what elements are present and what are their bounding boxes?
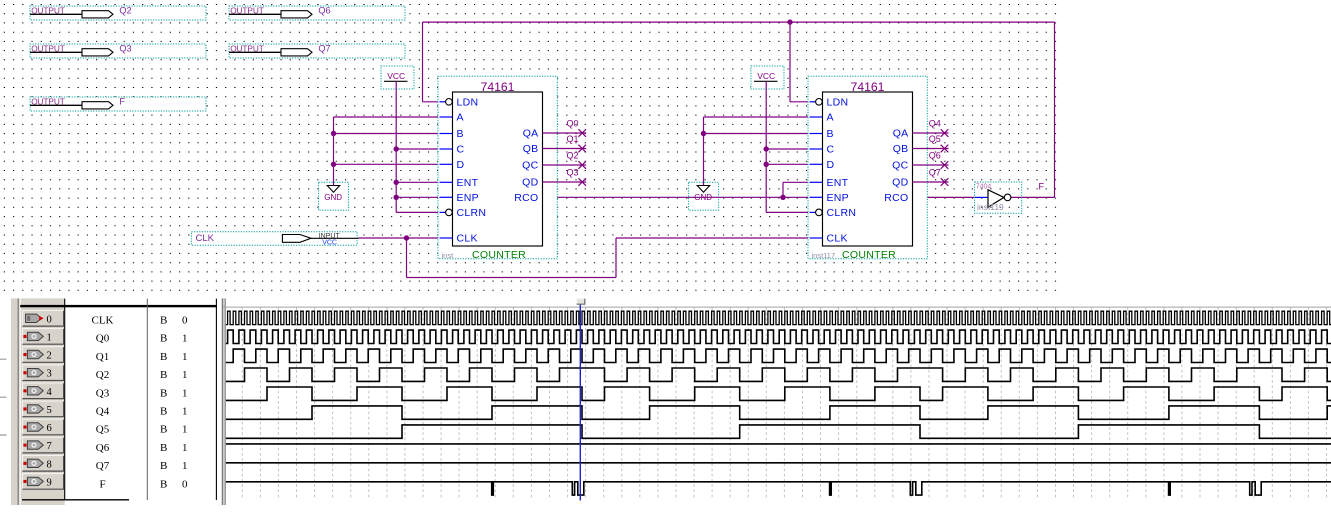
wire QD (Q3) inst — [543, 181, 587, 183]
svg-text:QC: QC — [522, 160, 538, 172]
svg-text:Q2: Q2 — [567, 151, 579, 161]
vcc symbol VCC1 bounding box — [381, 66, 414, 89]
schematic dot grid — [4, 5, 1060, 291]
wire RCO1 to ENP2 — [543, 196, 810, 198]
ground symbol GND2 bounding box — [689, 182, 719, 210]
waveform trace Q4 — [226, 406, 1331, 419]
svg-text:74161: 74161 — [851, 80, 885, 94]
counter inst117 74161 bounding box — [808, 76, 927, 258]
vcc symbol VCC1 bar — [384, 80, 408, 82]
svg-text:B: B — [457, 128, 464, 140]
pin stub ENT inst117 — [810, 181, 823, 183]
junction CLK net — [404, 235, 409, 240]
svg-text:9: 9 — [47, 477, 52, 488]
svg-text:D: D — [457, 159, 465, 171]
svg-text:Q2: Q2 — [96, 369, 109, 381]
svg-text:ENP: ENP — [827, 192, 850, 204]
svg-text:QB: QB — [523, 143, 539, 155]
wire QA (Q4) inst117 — [913, 132, 949, 134]
ground symbol GND2 triangle — [697, 186, 710, 193]
svg-text:B: B — [160, 406, 167, 418]
junction D1/GND rail — [331, 162, 336, 167]
input pin CLK line — [311, 237, 359, 239]
wire CLK rise — [615, 238, 617, 278]
pin stub D inst117 — [810, 163, 823, 165]
output pin Q3 wire line — [30, 51, 82, 53]
output pin Q6 bounding box — [229, 6, 405, 20]
output pin F arrow symbol — [82, 102, 113, 109]
svg-text:inst117: inst117 — [812, 251, 836, 260]
wire D2 — [766, 163, 809, 165]
output pin Q7 bounding box — [229, 44, 405, 58]
signal row icon 8 — [23, 459, 43, 467]
svg-text:OUTPUT: OUTPUT — [31, 44, 65, 54]
svg-text:OUTPUT: OUTPUT — [230, 6, 264, 16]
wire LDN1 horizontal — [423, 101, 443, 103]
svg-text:B: B — [160, 351, 167, 363]
time cursor — [579, 304, 581, 501]
wire B2 — [704, 133, 810, 135]
inverter inst119 triangle — [988, 190, 1004, 207]
wire CLRN1 — [396, 211, 446, 213]
svg-text:COUNTER: COUNTER — [472, 249, 526, 261]
pin stub ENP inst117 — [810, 196, 823, 198]
wire CLK to counter1 — [359, 237, 440, 239]
output pin Q7 arrow symbol — [281, 49, 312, 56]
signal row button 8 — [22, 455, 64, 472]
svg-text:7: 7 — [47, 441, 52, 452]
signal row button 6 — [22, 419, 64, 436]
output pin Q6 arrow symbol — [281, 11, 312, 18]
junction C1/VCC rail — [394, 146, 399, 151]
svg-text:7404: 7404 — [976, 183, 992, 190]
svg-text:Q1: Q1 — [96, 351, 109, 363]
column separator lines — [64, 299, 66, 500]
wire LDN feedback top run — [423, 21, 1055, 23]
wire A2 from GND rail — [704, 116, 810, 118]
waveform plot left double border — [222, 298, 226, 505]
output pin Q2 bounding box — [30, 6, 206, 20]
svg-text:CLK: CLK — [827, 233, 848, 245]
svg-text:1: 1 — [182, 369, 188, 381]
waveform trace Q6 — [226, 443, 1331, 445]
counter inst body — [453, 92, 543, 246]
svg-text:inst: inst — [442, 251, 455, 260]
signal row icon 4 — [23, 387, 43, 395]
junction B2/GND rail — [701, 131, 706, 136]
output pin F bounding box — [30, 97, 206, 111]
wire LDN2 horizontal — [790, 101, 813, 103]
vcc symbol VCC2 bar — [754, 80, 778, 82]
svg-text:Q4: Q4 — [929, 119, 941, 129]
svg-text:B: B — [160, 478, 167, 490]
svg-text:inst119: inst119 — [977, 202, 1004, 212]
wire C2 — [766, 148, 809, 150]
pin stub CLK inst — [440, 237, 453, 239]
signal row button 0 — [22, 310, 64, 327]
inverter inst119 bounding box — [975, 182, 1022, 213]
pin stub A inst — [440, 116, 453, 118]
svg-text:OUTPUT: OUTPUT — [31, 6, 65, 16]
bubble CLRN inst117 — [816, 209, 823, 216]
svg-text:B: B — [160, 460, 167, 472]
svg-text:6: 6 — [47, 423, 52, 434]
svg-text:1: 1 — [182, 333, 188, 345]
pin stub CLRN inst — [440, 211, 447, 213]
svg-text:B: B — [160, 369, 167, 381]
waveform trace Q0 — [226, 330, 1331, 343]
bubble LDN inst — [446, 99, 453, 106]
svg-text:F: F — [99, 478, 105, 490]
bubble CLRN inst — [446, 209, 453, 216]
wire VCC2 rail — [765, 81, 767, 212]
svg-text:2: 2 — [47, 351, 52, 362]
svg-text:VCC: VCC — [322, 240, 337, 247]
pin stub A inst117 — [810, 116, 823, 118]
input pin CLK arrow symbol — [282, 235, 311, 243]
svg-text:LDN: LDN — [457, 97, 479, 109]
wire LDN2 vertical — [789, 22, 791, 102]
pin stub D inst — [440, 163, 453, 165]
svg-text:D: D — [827, 159, 835, 171]
svg-text:CLRN: CLRN — [827, 207, 857, 219]
svg-text:OUTPUT: OUTPUT — [230, 44, 264, 54]
wire CLK vertical — [406, 238, 408, 278]
wire ENT2 vertical — [782, 182, 784, 197]
svg-text:COUNTER: COUNTER — [842, 249, 896, 261]
svg-text:A: A — [827, 112, 834, 124]
svg-text:GND: GND — [324, 193, 342, 202]
svg-text:Q2: Q2 — [119, 6, 131, 16]
svg-text:Q0: Q0 — [96, 333, 110, 345]
svg-text:1: 1 — [182, 424, 188, 436]
svg-text:Q6: Q6 — [929, 151, 941, 161]
junction C2/VCC rail — [764, 146, 769, 151]
dangling-end marker Q0 — [578, 129, 586, 137]
wire A1 from GND rail — [334, 116, 440, 118]
pin stub C inst117 — [810, 148, 823, 150]
signal row button 7 — [22, 437, 64, 454]
pin stub inverter input — [975, 196, 988, 198]
svg-text:B: B — [827, 128, 834, 140]
dangling-end marker Q1 — [578, 145, 586, 153]
wire CLRN2 — [766, 211, 816, 213]
bubble inverter output — [1004, 194, 1011, 201]
time cursor handle — [577, 299, 585, 305]
wire D1 — [334, 163, 440, 165]
dangling-end marker Q2 — [578, 161, 586, 169]
output pin Q3 arrow symbol — [82, 49, 113, 56]
wire GND1 rail — [333, 117, 335, 186]
svg-text:RCO: RCO — [884, 192, 908, 204]
svg-text:QA: QA — [523, 128, 539, 140]
svg-text:Q4: Q4 — [96, 406, 110, 418]
waveform trace Q5 — [226, 425, 1331, 438]
pin stub B inst — [440, 133, 453, 135]
junction D2/VCC rail — [764, 162, 769, 167]
wire CLK bottom run — [407, 277, 617, 279]
wire ENP1 — [396, 196, 439, 198]
wire VCC1 rail — [395, 81, 397, 212]
svg-text:0: 0 — [47, 314, 52, 325]
svg-text:CLK: CLK — [196, 233, 215, 244]
svg-text:F: F — [119, 97, 125, 107]
pin stub B inst117 — [810, 133, 823, 135]
wire inverter output to feedback — [1011, 196, 1055, 198]
svg-text:B: B — [160, 387, 167, 399]
input pin CLK bounding box — [191, 232, 357, 246]
dangling-end marker Q5 — [941, 145, 949, 153]
svg-text:B: B — [160, 442, 167, 454]
svg-text:Q7: Q7 — [929, 168, 941, 178]
output pin Q3 bounding box — [30, 44, 206, 58]
svg-text:B: B — [160, 333, 167, 345]
svg-text:1: 1 — [182, 351, 188, 363]
waveform plot vertical gridlines — [242, 308, 1326, 500]
svg-text:ENT: ENT — [457, 177, 479, 189]
output pin Q2 arrow symbol — [82, 11, 113, 18]
svg-text:3: 3 — [47, 369, 52, 380]
junction ENT1/VCC rail — [394, 180, 399, 185]
signal row icon 3 — [23, 369, 43, 377]
wire QC (Q2) inst — [543, 164, 587, 166]
svg-text:LDN: LDN — [827, 97, 849, 109]
pin stub C inst — [440, 148, 453, 150]
wire C1 — [396, 148, 439, 150]
svg-text:ENT: ENT — [827, 177, 849, 189]
pin stub CLK inst117 — [810, 237, 823, 239]
svg-text:QA: QA — [893, 128, 909, 140]
name column cell background — [65, 299, 146, 500]
wire LDN1 vertical — [422, 22, 424, 102]
bubble LDN inst117 — [816, 99, 823, 106]
svg-text:0: 0 — [182, 315, 188, 327]
svg-text:QB: QB — [893, 143, 909, 155]
dangling-end marker Q4 — [941, 129, 949, 137]
header bottom thick line — [20, 305, 217, 307]
output pin Q6 wire line — [229, 13, 281, 15]
svg-text:1: 1 — [182, 406, 188, 418]
signal row button 2 — [22, 346, 64, 363]
signal row button 3 — [22, 364, 64, 381]
svg-text:0: 0 — [182, 478, 188, 490]
svg-text:Q6: Q6 — [318, 6, 330, 16]
pin stub LDN inst117 — [810, 101, 817, 103]
bottom edge line — [22, 499, 129, 501]
signal row icon 6 — [23, 423, 43, 431]
svg-text:1: 1 — [47, 332, 52, 343]
signal row button 9 — [22, 473, 64, 490]
svg-text:OUTPUT: OUTPUT — [31, 97, 65, 107]
left gutter tick marks — [0, 359, 7, 435]
junction LDN feedback — [787, 19, 792, 24]
output pin Q2 wire line — [30, 13, 82, 15]
waveform panel left sunken separator — [17, 298, 19, 505]
value column cell background — [148, 299, 216, 500]
svg-text:Q7: Q7 — [318, 44, 330, 54]
svg-text:B: B — [160, 424, 167, 436]
junction ENP1/VCC rail — [394, 195, 399, 200]
svg-text:Q7: Q7 — [96, 460, 110, 472]
svg-text:Q3: Q3 — [119, 44, 131, 54]
wire CLK to counter2 — [616, 237, 810, 239]
wire QB (Q5) inst117 — [913, 148, 949, 150]
counter inst 74161 bounding box — [438, 76, 557, 258]
svg-text:ENP: ENP — [457, 192, 480, 204]
svg-text:QD: QD — [522, 177, 538, 189]
svg-text:C: C — [457, 144, 465, 156]
wire feedback right vertical — [1054, 22, 1056, 197]
signal row icon 0 — [26, 314, 44, 322]
waveform trace Q7 — [226, 462, 1331, 464]
svg-text:1: 1 — [182, 387, 188, 399]
wire GND2 rail — [703, 117, 705, 186]
signal row icon 1 — [23, 332, 43, 340]
signal row icon 2 — [23, 350, 43, 358]
pin stub CLRN inst117 — [810, 211, 817, 213]
signal row button 5 — [22, 401, 64, 418]
dangling-end marker Q3 — [578, 178, 586, 186]
svg-text:F: F — [1039, 181, 1045, 191]
output pin F wire line — [30, 104, 82, 106]
signal row icon 9 — [23, 477, 43, 485]
svg-text:RCO: RCO — [514, 192, 538, 204]
wire RCO2 to inverter — [913, 196, 976, 198]
svg-text:A: A — [457, 112, 464, 124]
waveform plot top border — [223, 306, 1331, 308]
svg-text:B: B — [160, 315, 167, 327]
signal row button 4 — [22, 383, 64, 400]
svg-text:1: 1 — [182, 460, 188, 472]
junction B1/GND rail — [331, 131, 336, 136]
wire QB (Q1) inst — [543, 148, 587, 150]
svg-text:CLK: CLK — [457, 233, 478, 245]
dangling-end marker Q7 — [941, 178, 949, 186]
svg-text:4: 4 — [47, 387, 53, 398]
waveform trace Q2 — [226, 368, 1331, 381]
svg-text:C: C — [827, 144, 835, 156]
svg-text:CLRN: CLRN — [457, 207, 487, 219]
wire ENT1 — [396, 181, 439, 183]
svg-text:QC: QC — [892, 160, 908, 172]
dangling-end marker Q6 — [941, 161, 949, 169]
wire QC (Q6) inst117 — [913, 164, 949, 166]
waveform trace Q3 — [226, 387, 1331, 400]
svg-text:Q3: Q3 — [567, 168, 579, 178]
svg-text:Q6: Q6 — [96, 442, 110, 454]
junction ENT2/ENP2 — [780, 195, 785, 200]
pin stub LDN inst — [440, 101, 447, 103]
signal row icon 7 — [23, 441, 43, 449]
svg-text:CLK: CLK — [92, 315, 114, 327]
signal row button 1 — [22, 328, 64, 345]
svg-text:Q3: Q3 — [96, 387, 110, 399]
svg-text:Q5: Q5 — [96, 424, 110, 436]
wire QD (Q7) inst117 — [913, 181, 949, 183]
waveform trace F — [226, 482, 1331, 495]
counter inst117 body — [823, 92, 913, 246]
signal row icon 5 — [23, 405, 43, 413]
svg-text:Q0: Q0 — [567, 119, 579, 129]
pin stub ENP inst — [440, 196, 453, 198]
ground symbol GND1 bounding box — [319, 182, 349, 210]
svg-text:74161: 74161 — [481, 80, 515, 94]
wire QA (Q0) inst — [543, 132, 587, 134]
svg-text:5: 5 — [47, 405, 52, 416]
ground symbol GND1 triangle — [327, 186, 340, 193]
pin stub ENT inst — [440, 181, 453, 183]
waveform panel background — [11, 298, 65, 505]
waveform trace Q1 — [226, 349, 1331, 362]
vcc symbol VCC2 bounding box — [751, 66, 784, 89]
waveform trace CLK — [226, 311, 1331, 324]
svg-text:VCC: VCC — [757, 71, 775, 81]
svg-text:Q1: Q1 — [567, 134, 579, 144]
svg-text:8: 8 — [47, 459, 52, 470]
wire ENT2 — [783, 181, 810, 183]
svg-text:VCC: VCC — [387, 71, 405, 81]
svg-text:Q5: Q5 — [929, 134, 941, 144]
svg-text:1: 1 — [182, 442, 188, 454]
output pin Q7 wire line — [229, 51, 281, 53]
svg-text:QD: QD — [892, 177, 908, 189]
wire B1 — [334, 133, 440, 135]
